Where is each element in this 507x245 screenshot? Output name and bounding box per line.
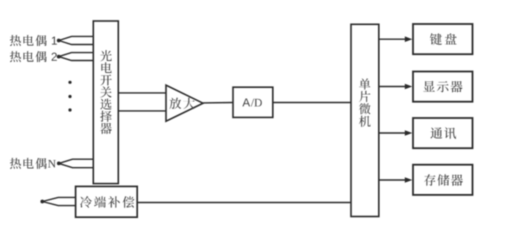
wire cold junction compensation to MCU [137, 202, 351, 204]
arrow MCU to keyboard [379, 38, 405, 40]
block 显示器 display [413, 72, 473, 102]
thermocouple TC1 symbol and wires to selector [59, 36, 94, 44]
arrow MCU to memory [379, 179, 405, 181]
arrow MCU to communication [379, 132, 405, 134]
block 冷端补偿 (cold junction compensation) [76, 186, 138, 217]
label 热电偶N [10, 158, 47, 169]
wire selector to amp input upper [118, 92, 166, 94]
thermocouple cold-junction symbol and wires [42, 197, 75, 205]
wire selector to amp input lower [118, 110, 166, 112]
label 热电偶1 [10, 35, 47, 46]
block U2 单片微机 (single-chip microcomputer) [351, 24, 379, 216]
thermocouple TC2 symbol and wires to selector [59, 53, 94, 61]
amplifier 放大 triangle [166, 85, 203, 121]
thermocouple TCN symbol and wires to selector [59, 159, 94, 168]
block 存储器 memory [413, 165, 473, 195]
wire A/D to MCU [273, 102, 351, 104]
wire amp output to A/D [203, 102, 233, 104]
ellipsis dots node (more channels) [68, 81, 71, 112]
block 通讯 communication [413, 118, 473, 148]
block A/D converter [233, 87, 273, 117]
block 键盘 keyboard [413, 24, 473, 54]
arrow MCU to display [379, 86, 405, 88]
block U1 光电开关选择器 (opto switch selector) [93, 21, 118, 184]
label 热电偶2 [10, 51, 47, 62]
